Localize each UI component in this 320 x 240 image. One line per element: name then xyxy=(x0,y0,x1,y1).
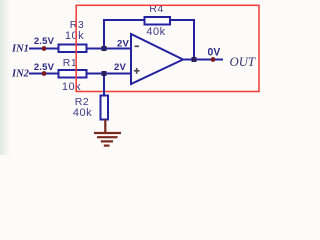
op-amp minus sign xyxy=(135,45,140,47)
wire R4 to output node xyxy=(170,20,194,60)
op-amp plus sign xyxy=(134,68,140,74)
svg-text:IN2: IN2 xyxy=(11,69,30,80)
resistor R3 body xyxy=(59,45,87,53)
svg-text:2V: 2V xyxy=(114,62,126,73)
svg-text:40k: 40k xyxy=(146,26,165,38)
probe dot IN2 2.5V xyxy=(42,71,47,76)
svg-text:40k: 40k xyxy=(73,107,92,119)
svg-text:2.5V: 2.5V xyxy=(34,62,55,73)
svg-text:OUT: OUT xyxy=(230,54,256,69)
wire IN1 lead xyxy=(29,48,58,50)
junction node at output / feedback xyxy=(192,57,197,62)
junction node at R3 / feedback xyxy=(102,46,107,51)
resistor R4 body xyxy=(145,17,171,25)
probe dot IN1 2.5V xyxy=(42,46,47,51)
wire R1 to op-amp non-inverting input xyxy=(87,73,131,75)
wire IN2 lead xyxy=(29,73,58,75)
wire op-amp output xyxy=(182,59,223,61)
wire R3 to op-amp inverting input xyxy=(87,48,131,50)
wire feedback left segment to R4 xyxy=(104,20,144,49)
junction node at R1 / R2 xyxy=(102,71,107,76)
svg-text:IN1: IN1 xyxy=(11,44,29,55)
wire R2 top lead xyxy=(103,74,105,97)
ground xyxy=(94,120,121,146)
svg-text:2V: 2V xyxy=(117,39,129,50)
probe dot OUT 0V xyxy=(211,57,216,62)
resistor R1 body xyxy=(59,70,87,78)
wire R2 lead over red edge xyxy=(103,89,105,94)
svg-text:10k: 10k xyxy=(65,30,84,42)
op-amp U1 xyxy=(131,34,183,84)
resistor R2 body xyxy=(101,96,109,120)
selection rectangle (red) xyxy=(76,5,259,91)
svg-text:2.5V: 2.5V xyxy=(34,36,55,47)
svg-text:0V: 0V xyxy=(208,47,221,59)
svg-text:R1: R1 xyxy=(63,57,77,69)
